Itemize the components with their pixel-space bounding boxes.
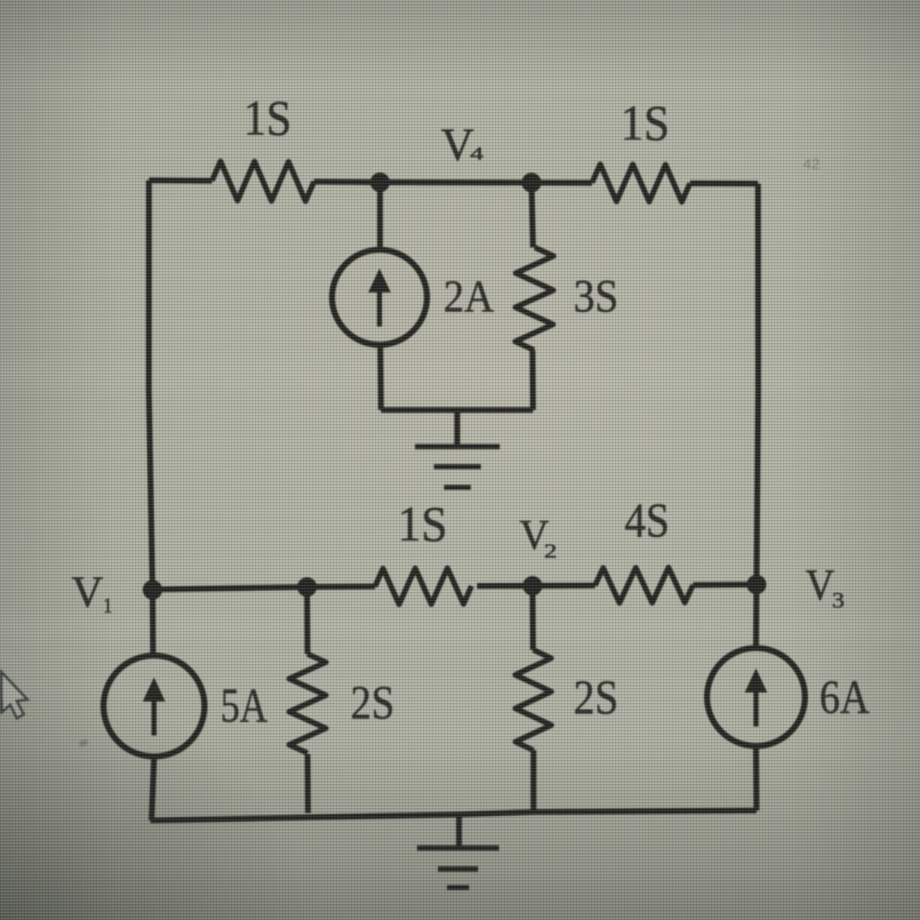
svg-text:1S: 1S xyxy=(621,95,670,151)
svg-text:6A: 6A xyxy=(820,671,870,724)
svg-text:2: 2 xyxy=(544,541,557,563)
svg-text:3: 3 xyxy=(832,588,845,613)
svg-text:2S: 2S xyxy=(351,677,395,730)
svg-text:1: 1 xyxy=(103,594,113,618)
svg-text:2A: 2A xyxy=(444,271,495,322)
svg-text:1S: 1S xyxy=(398,496,448,552)
svg-text:V: V xyxy=(72,568,104,617)
svg-text:4: 4 xyxy=(470,144,484,164)
svg-text:1S: 1S xyxy=(244,90,292,146)
svg-text:2S: 2S xyxy=(574,670,619,725)
svg-text:4S: 4S xyxy=(625,493,670,548)
svg-text:3S: 3S xyxy=(574,271,619,323)
svg-text:V: V xyxy=(806,561,835,610)
svg-text:5A: 5A xyxy=(221,678,268,733)
